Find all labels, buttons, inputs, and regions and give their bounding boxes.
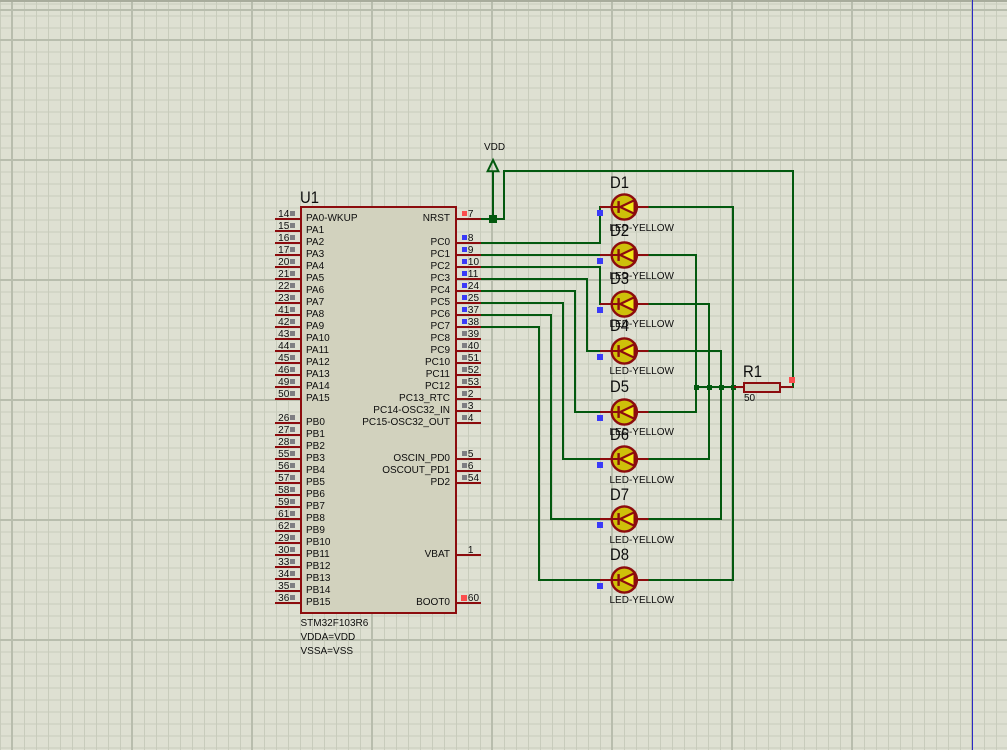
- value LED-YELLOW D2: [610, 272, 674, 282]
- IC U1 body: [300, 206, 457, 614]
- junction VDD node: [489, 215, 497, 223]
- junction rail x=709: [707, 385, 712, 390]
- LED D6: [596, 443, 652, 475]
- LED D2: [596, 239, 652, 271]
- U1 pin 26 PB0: [275, 422, 300, 425]
- label D5: [610, 379, 629, 396]
- wire D2 anode to rail: [648, 254, 697, 256]
- U1 pin 34 PB13: [275, 578, 300, 581]
- U1 pin 1 VBAT: [456, 554, 481, 557]
- U1 pin 52 PC11: [456, 374, 481, 377]
- wire PC3 to D4 cathode: [481, 278, 588, 280]
- U1 pin 2 PC13_RTC: [456, 398, 481, 401]
- wire D6 anode to rail: [648, 458, 710, 460]
- value LED-YELLOW D4: [610, 367, 674, 377]
- node indicator D1 cathode: [597, 210, 603, 216]
- power VDD symbol: [492, 171, 494, 220]
- U1 pin 56 PB4: [275, 470, 300, 473]
- wire anode rail y=387: [695, 386, 735, 388]
- node indicator D3 cathode: [597, 307, 603, 313]
- U1 pin 3 PC14-OSC32_IN: [456, 410, 481, 413]
- value LED-YELLOW D3: [610, 320, 674, 330]
- U1 pin 55 PB3: [275, 458, 300, 461]
- label D4: [610, 318, 629, 335]
- node indicator R1 right pin: [789, 377, 795, 383]
- wire NRST to VDD junction: [481, 218, 505, 220]
- label D6: [610, 427, 629, 444]
- U1 pin 36 PB15: [275, 602, 300, 605]
- U1 pin 17 PA3: [275, 254, 300, 257]
- wire PC5 to D6 cathode: [481, 302, 564, 304]
- value LED-YELLOW D5: [610, 428, 674, 438]
- U1 pin 59 PB7: [275, 506, 300, 509]
- U1 pin 33 PB12: [275, 566, 300, 569]
- wire PC6 to D7 cathode: [481, 314, 552, 316]
- U1 pin 43 PA10: [275, 338, 300, 341]
- resistor R1 pin left: [734, 386, 743, 388]
- U1 pin 39 PC8: [456, 338, 481, 341]
- U1 pin 35 PB14: [275, 590, 300, 593]
- value LED-YELLOW D6: [610, 476, 674, 486]
- U1 pin 60 BOOT0: [456, 602, 481, 605]
- property VDDA=VDD: [301, 633, 356, 643]
- U1 pin 46 PA13: [275, 374, 300, 377]
- LED D4: [596, 335, 652, 367]
- U1 pin 29 PB10: [275, 542, 300, 545]
- U1 pin 54 PD2: [456, 482, 481, 485]
- U1 pin 24 PC4: [456, 290, 481, 293]
- U1 pin 5 OSCIN_PD0: [456, 458, 481, 461]
- resistor R1 body: [743, 382, 781, 393]
- U1 pin 40 PC9: [456, 350, 481, 353]
- wire right drop x=793 to R1: [792, 170, 794, 388]
- U1 pin 6 OSCOUT_PD1: [456, 470, 481, 473]
- U1 pin 51 PC10: [456, 362, 481, 365]
- junction rail x=696: [694, 385, 699, 390]
- U1 pin 15 PA1: [275, 230, 300, 233]
- wire D5 anode to rail: [648, 411, 697, 413]
- wire PC1 to D2 cathode: [481, 254, 600, 256]
- LED D5: [596, 396, 652, 428]
- node indicator D6 cathode: [597, 462, 603, 468]
- U1 pin 7 NRST: [456, 218, 481, 221]
- U1 pin 10 PC2: [456, 266, 481, 269]
- label VDD: [484, 143, 505, 153]
- U1 pin 61 PB8: [275, 518, 300, 521]
- U1 pin 22 PA6: [275, 290, 300, 293]
- U1 pin 28 PB2: [275, 446, 300, 449]
- wire top rail y=171: [503, 170, 794, 172]
- U1 pin 38 PC7: [456, 326, 481, 329]
- wire D4 anode to rail: [648, 350, 722, 352]
- junction rail x=721: [719, 385, 724, 390]
- U1 pin 42 PA9: [275, 326, 300, 329]
- U1 pin 62 PB9: [275, 530, 300, 533]
- property VSSA=VSS: [301, 647, 354, 657]
- wire D8 anode to rail: [648, 579, 734, 581]
- U1 pin 27 PB1: [275, 434, 300, 437]
- U1 pin 11 PC3: [456, 278, 481, 281]
- wire PC2 to D3 cathode: [481, 266, 601, 268]
- label R1: [743, 364, 762, 381]
- wire D1 anode to rail: [648, 206, 734, 208]
- node indicator D5 cathode: [597, 415, 603, 421]
- wire PC4 to D5 cathode: [481, 290, 576, 292]
- value STM32F103R6: [301, 619, 369, 629]
- LED D1: [596, 191, 652, 223]
- wire PC7 to D8 cathode: [481, 326, 540, 328]
- value LED-YELLOW D8: [610, 596, 674, 606]
- node indicator D7 cathode: [597, 522, 603, 528]
- LED D3: [596, 288, 652, 320]
- wire VDD riser at x=504: [503, 170, 505, 220]
- label D7: [610, 487, 629, 504]
- node indicator D8 cathode: [597, 583, 603, 589]
- node indicator D2 cathode: [597, 258, 603, 264]
- U1 pin 14 PA0-WKUP: [275, 218, 300, 221]
- U1 pin 21 PA5: [275, 278, 300, 281]
- U1 pin 25 PC5: [456, 302, 481, 305]
- U1 pin 9 PC1: [456, 254, 481, 257]
- label U1: [300, 190, 319, 207]
- U1 pin 58 PB6: [275, 494, 300, 497]
- label D3: [610, 271, 629, 288]
- resistor R1 pin right: [781, 386, 793, 388]
- U1 pin 23 PA7: [275, 302, 300, 305]
- U1 pin 50 PA15: [275, 398, 300, 401]
- label D1: [610, 175, 629, 192]
- U1 pin 49 PA14: [275, 386, 300, 389]
- value LED-YELLOW D1: [610, 224, 674, 234]
- node indicator D4 cathode: [597, 354, 603, 360]
- U1 pin 37 PC6: [456, 314, 481, 317]
- U1 pin 30 PB11: [275, 554, 300, 557]
- label D2: [610, 223, 629, 240]
- U1 pin 44 PA11: [275, 350, 300, 353]
- wire PC0 to D1 cathode: [481, 242, 600, 244]
- U1 pin 20 PA4: [275, 266, 300, 269]
- U1 pin 8 PC0: [456, 242, 481, 245]
- U1 pin 53 PC12: [456, 386, 481, 389]
- value 50: [744, 394, 755, 404]
- wire D7 anode to rail: [648, 518, 722, 520]
- U1 pin 57 PB5: [275, 482, 300, 485]
- U1 pin 41 PA8: [275, 314, 300, 317]
- wire D3 anode to rail: [648, 303, 710, 305]
- label D8: [610, 547, 629, 564]
- value LED-YELLOW D7: [610, 536, 674, 546]
- junction rail x=733: [731, 385, 736, 390]
- U1 pin 4 PC15-OSC32_OUT: [456, 422, 481, 425]
- LED D8: [596, 564, 652, 596]
- U1 pin 45 PA12: [275, 362, 300, 365]
- LED D7: [596, 503, 652, 535]
- U1 pin 16 PA2: [275, 242, 300, 245]
